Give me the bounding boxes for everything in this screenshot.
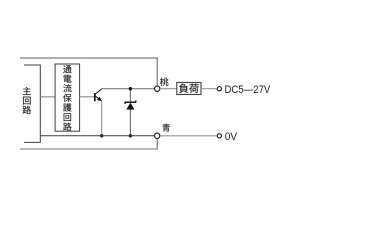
label: 負荷	[179, 84, 188, 93]
transistor Q1 base bar	[94, 93, 96, 101]
label: 青	[162, 124, 169, 132]
svg-text:0V: 0V	[225, 131, 238, 143]
wire: 0V rail from main circuit to blue terminal	[40, 135, 154, 137]
terminal: blue 0V 青	[155, 133, 160, 138]
wire: stub below blue terminal	[156, 139, 158, 149]
wire: collector line to pink terminal	[101, 88, 154, 90]
box: main circuit 主回路 (open-left outline)	[24, 65, 40, 142]
terminal: pink output 桃	[155, 86, 160, 91]
wire: top supply rail (horizontal)	[20, 57, 158, 59]
wire: load box to DC supply terminal	[201, 88, 217, 90]
node: diode top junction on collector line	[129, 87, 132, 90]
wire: vertical drop from top rail to pink terminal	[156, 57, 158, 86]
node: emitter / 0V rail junction	[100, 134, 103, 137]
zener diode ZD1 anode triangle (apex up)	[126, 103, 134, 110]
wire: pink terminal to load box	[160, 88, 177, 90]
label: 桃	[160, 78, 168, 86]
wire: return line to main circuit	[20, 148, 158, 150]
wire: emitter down to 0V rail	[101, 101, 103, 136]
terminal: DC supply	[217, 87, 221, 91]
node: diode bottom junction on 0V rail	[129, 134, 132, 137]
wire: blue terminal to 0V terminal	[160, 135, 217, 137]
zener diode ZD1 cathode bar with bent ends	[125, 101, 136, 104]
zener diode ZD1 top lead	[129, 89, 131, 103]
transistor Q1 emitter lead (diagonal) with NPN arrow	[95, 96, 101, 101]
label: 通電流保護回路 (vertical)	[63, 65, 71, 73]
wire: base line, protection circuit to transistor base	[80, 96, 95, 98]
svg-text:DC5—27V: DC5—27V	[225, 84, 271, 96]
terminal: 0V	[217, 134, 221, 138]
box: overcurrent protection circuit 通電流保護回路	[55, 64, 80, 131]
label: 主回路 (vertical)	[23, 87, 31, 95]
transistor Q1 collector lead (diagonal)	[95, 89, 102, 94]
box: load 負荷	[177, 83, 201, 95]
zener diode ZD1 bottom lead	[129, 110, 131, 136]
wire: base line, main circuit to protection circuit	[40, 96, 55, 98]
